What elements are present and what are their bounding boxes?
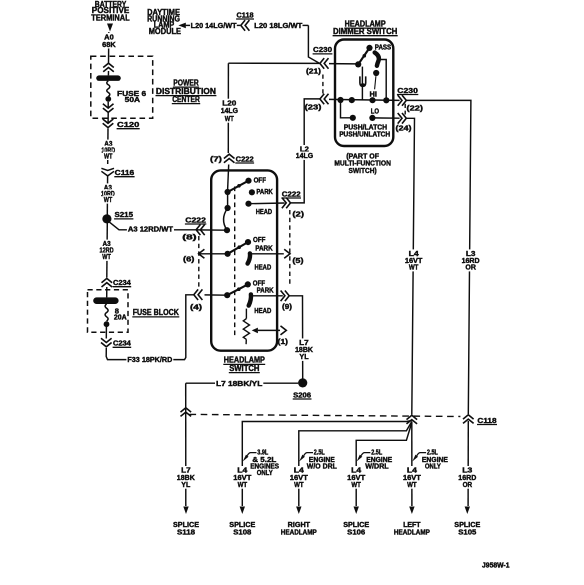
svg-text:S105: S105 bbox=[458, 527, 476, 536]
switch1 HEAD contact dot bbox=[245, 201, 251, 207]
switch3 pivot dot bbox=[224, 292, 230, 298]
connector C222 pin 8 (chevrons left) bbox=[196, 225, 205, 236]
svg-text:LO: LO bbox=[371, 107, 380, 116]
wire HEAD out to pin 2 bbox=[249, 202, 285, 205]
label right headlamp bbox=[281, 520, 317, 537]
wire label A3 10RD WT (lower) bbox=[100, 183, 116, 204]
wire PDC exit bbox=[107, 113, 109, 123]
wire pin 6 (inside switch) bbox=[200, 253, 228, 255]
switch3 OFF contact dot bbox=[245, 281, 251, 287]
pin label (1) bbox=[278, 337, 289, 346]
svg-text:HEAD: HEAD bbox=[254, 306, 271, 315]
label splice S118 bbox=[173, 520, 199, 537]
svg-text:C230: C230 bbox=[313, 45, 332, 54]
wire label L20 18LG/WT bbox=[254, 21, 303, 30]
svg-text:SWITCH: SWITCH bbox=[229, 364, 259, 373]
label PARK (switch3) bbox=[257, 285, 275, 294]
svg-text:WT: WT bbox=[104, 195, 113, 204]
connector C118 crossing L7 (chevrons up) bbox=[181, 408, 192, 417]
wire into fuse 6 bbox=[107, 71, 109, 75]
switch2 pivot dot bbox=[225, 251, 231, 257]
svg-text:WT: WT bbox=[104, 151, 113, 160]
svg-text:(6): (6) bbox=[183, 255, 195, 264]
label C230 (left) bbox=[313, 45, 333, 54]
connector C234 bottom (chevrons down) bbox=[101, 338, 112, 347]
wire (21) into dimmer switch bbox=[329, 63, 356, 65]
connector C222 dashed link (8-4) bbox=[198, 236, 200, 288]
svg-text:PUSH/UNLATCH: PUSH/UNLATCH bbox=[339, 130, 390, 139]
wire label A3 10RD WT (upper) bbox=[100, 139, 116, 160]
wire F33 18PK/RD from fuse block to headlamp switch pin 4 bbox=[106, 295, 194, 364]
label C234 (bottom) bbox=[113, 339, 132, 348]
wire L20 14LG WT vertical bbox=[227, 63, 229, 153]
connector C222 dashed link (2-9) bbox=[289, 210, 291, 287]
svg-text:PASS: PASS bbox=[375, 42, 392, 51]
svg-text:ONLY: ONLY bbox=[257, 468, 273, 477]
label PUSH/LATCH PUSH/UNLATCH bbox=[339, 122, 390, 138]
svg-text:PARK: PARK bbox=[256, 187, 273, 196]
svg-text:F33 18PK/RD: F33 18PK/RD bbox=[127, 355, 172, 364]
wire A0 battery feed (vertical) bbox=[108, 32, 110, 64]
svg-text:CENTER: CENTER bbox=[172, 95, 200, 104]
svg-text:OFF: OFF bbox=[254, 175, 267, 184]
connector (PDC cavity, chevrons up) bbox=[103, 63, 114, 72]
wire L4 16VT WT (pin24 to C118) bbox=[407, 118, 415, 414]
dimmer lever (to PASS) bbox=[358, 48, 369, 65]
fuse F8 wavy element bbox=[105, 304, 108, 321]
connector C118 crossing L4 (chevrons up) bbox=[407, 415, 418, 424]
wire label L3 16RD OR (S105 wire) bbox=[457, 466, 477, 489]
wire label L4 16VT WT (upper) bbox=[404, 249, 424, 272]
label left headlamp bbox=[394, 520, 430, 537]
svg-text:OFF: OFF bbox=[253, 235, 266, 244]
svg-text:YL: YL bbox=[299, 352, 309, 361]
svg-text:C234: C234 bbox=[113, 339, 131, 348]
connector C222 pin 9 (chevrons right) bbox=[281, 291, 290, 302]
wire label A0 68K bbox=[101, 33, 117, 49]
connector C120 (chevrons down) bbox=[103, 119, 114, 128]
svg-text:L20 18LG/WT: L20 18LG/WT bbox=[254, 21, 303, 30]
svg-text:WT: WT bbox=[225, 114, 234, 123]
svg-text:HEAD: HEAD bbox=[256, 207, 272, 216]
wire L7 vertical to splice S118 bbox=[185, 383, 187, 506]
connector C118 (chevrons left) bbox=[241, 20, 250, 31]
label C118 (top) bbox=[236, 10, 254, 19]
svg-text:(5): (5) bbox=[292, 256, 304, 265]
wire label L4 16VT WT (left headlamp wire) bbox=[402, 466, 422, 489]
svg-text:ONLY: ONLY bbox=[425, 462, 441, 471]
label C234 (top) bbox=[113, 278, 132, 287]
arrow to left headlamp bbox=[409, 507, 414, 515]
note 2.5L engine only bbox=[412, 448, 448, 471]
label HEAD (switch3) bbox=[254, 306, 271, 315]
svg-text:(9): (9) bbox=[282, 302, 293, 311]
label FUSE BLOCK bbox=[132, 308, 179, 317]
dimmer wiper arc bbox=[375, 53, 379, 66]
wire A3 segment C120-C116 bbox=[107, 129, 109, 165]
label HI bbox=[370, 90, 378, 99]
wire branch to splice S106 bbox=[356, 423, 412, 507]
terminal pin 1 arrow bbox=[281, 326, 287, 335]
wire label L7 18BK YL (vertical run) bbox=[294, 338, 314, 361]
wire A3 12RD/WT branch from S215 to C222 pin 8 bbox=[110, 222, 196, 234]
pin label (9) bbox=[282, 302, 293, 311]
dimmer HI row dot b bbox=[349, 97, 355, 103]
label splice S108 bbox=[229, 520, 255, 537]
svg-text:14LG: 14LG bbox=[296, 151, 314, 160]
label part of multi-function switch bbox=[334, 152, 391, 175]
connector C230 pin 24 (chevrons right) bbox=[398, 113, 407, 124]
pin label (7) bbox=[210, 155, 223, 164]
wire HI feed to LO row bbox=[341, 100, 353, 118]
switch1 lever bbox=[228, 181, 249, 192]
wire pin 7 into headlamp switch bbox=[228, 165, 229, 191]
dimmer HI row dot c bbox=[369, 97, 375, 103]
label C120 bbox=[117, 120, 140, 129]
headlamp dimmer switch title bbox=[333, 19, 398, 36]
svg-text:S215: S215 bbox=[115, 210, 134, 219]
wire A3 segment S215-C234 bbox=[106, 223, 109, 278]
wire stub before C118 bbox=[237, 24, 240, 26]
svg-text:S206: S206 bbox=[293, 390, 311, 399]
diagram number J958W-1 bbox=[482, 561, 510, 570]
svg-text:HI: HI bbox=[370, 90, 378, 99]
label C118 (bottom) bbox=[477, 416, 497, 425]
note 3.9L & 5.2L engines only bbox=[243, 448, 279, 478]
switch1 pivot dot bbox=[225, 189, 231, 195]
pin label (5) bbox=[292, 256, 304, 265]
op-box headlamp switch outline bbox=[211, 170, 277, 350]
wire pin 9 to splice S206 bbox=[289, 296, 302, 379]
label C222 (pin 2) bbox=[281, 189, 301, 198]
connector C118 crossing L3 (chevrons up) bbox=[463, 415, 474, 424]
label OFF (switch2) bbox=[253, 235, 266, 244]
svg-text:TERMINAL: TERMINAL bbox=[91, 14, 129, 23]
svg-text:FUSE BLOCK: FUSE BLOCK bbox=[133, 308, 179, 317]
terminal pin 5 arrow bbox=[284, 249, 290, 258]
svg-text:C118: C118 bbox=[237, 10, 254, 19]
switch1 OFF contact dot bbox=[245, 178, 251, 184]
connector C116 (in-line, shallow+deep chevrons) bbox=[101, 168, 114, 176]
svg-text:WT: WT bbox=[351, 480, 361, 489]
wire label L3 16RD OR (upper) bbox=[461, 249, 481, 272]
pin label (24) bbox=[396, 124, 413, 133]
dimmer arc output link bbox=[380, 60, 386, 101]
label C116 bbox=[114, 168, 134, 177]
svg-text:C116: C116 bbox=[115, 168, 135, 177]
switch1 feed link + arc to pin8 node bbox=[224, 192, 228, 230]
wire A3 segment C116-S215 bbox=[106, 176, 108, 215]
arrow to splice S118 bbox=[183, 507, 188, 515]
svg-text:WT: WT bbox=[409, 263, 419, 272]
arrow to splice S106 bbox=[354, 507, 359, 515]
wire L3 to splice S105 (lower) bbox=[467, 421, 469, 506]
svg-text:C222: C222 bbox=[236, 154, 254, 163]
svg-text:(24): (24) bbox=[396, 124, 413, 133]
svg-text:C120: C120 bbox=[117, 120, 139, 129]
resistor wiper arrow bbox=[252, 328, 280, 334]
wire fuse block exit bbox=[105, 327, 107, 339]
dimmer mid contact stub bbox=[375, 76, 376, 89]
arrow to splice S105 bbox=[465, 507, 470, 515]
svg-text:WT: WT bbox=[407, 480, 417, 489]
wire label L20 14LG WT bbox=[220, 98, 239, 123]
pin label (8) bbox=[182, 232, 197, 241]
switch1 link dot bbox=[225, 205, 231, 211]
svg-text:L7 18BK/YL: L7 18BK/YL bbox=[216, 379, 263, 388]
wire label L2 14LG bbox=[295, 145, 314, 161]
label PARK (switch2) bbox=[255, 244, 273, 253]
connector C230 pin 22 (chevrons right) bbox=[398, 95, 407, 106]
svg-text:WT: WT bbox=[102, 252, 111, 261]
label OFF (switch3) bbox=[253, 278, 266, 287]
label splice S106 bbox=[343, 520, 369, 537]
switch3 PARK-HEAD contact bar bbox=[249, 294, 251, 305]
battery positive terminal label bbox=[91, 0, 130, 23]
svg-text:J958W-1: J958W-1 bbox=[482, 561, 510, 570]
switch3 lever bbox=[227, 284, 248, 295]
note 2.5L engine w/DRL bbox=[357, 448, 393, 471]
label splice S105 bbox=[454, 520, 480, 537]
wire LO out bbox=[372, 117, 399, 119]
battery terminal symbol (solid down arrow) bbox=[107, 24, 113, 32]
switch mechanical link (dashed) bbox=[234, 187, 236, 339]
dimmer PASS contact dot bbox=[366, 45, 372, 51]
arrow to splice S108 bbox=[240, 507, 245, 515]
connector C230 pin 23 (chevrons left) bbox=[320, 94, 329, 105]
power distribution center label bbox=[156, 78, 217, 104]
wire label L4 16VT WT (right headlamp wire) bbox=[289, 466, 309, 489]
label PASS bbox=[375, 42, 392, 51]
fuse 8 20A value label bbox=[114, 306, 127, 321]
wire junction feed to headlamp switch (horizontal) bbox=[228, 62, 319, 64]
svg-text:PARK: PARK bbox=[255, 244, 273, 253]
wire label L7 18BK YL (bottom) bbox=[176, 466, 196, 489]
wire from C118 to corner bbox=[303, 24, 309, 26]
fuse F6 wavy element bbox=[107, 81, 110, 97]
svg-text:OR: OR bbox=[463, 480, 473, 489]
svg-text:(2): (2) bbox=[292, 210, 304, 219]
label C222 (pin 7) bbox=[235, 154, 254, 163]
wire pin 8 (inside switch) bbox=[197, 229, 228, 231]
wire label L20 14LG/WT bbox=[191, 21, 237, 30]
dimmer LO contact dot b bbox=[369, 115, 375, 121]
label PARK (switch1) bbox=[256, 187, 273, 196]
wire pin 9 out (inside switch) bbox=[253, 295, 283, 297]
headlamp switch title bbox=[223, 356, 265, 373]
wire fuse to PDC edge bbox=[107, 102, 109, 107]
svg-text:DIMMER SWITCH: DIMMER SWITCH bbox=[333, 27, 397, 36]
note 2.5L engine w/o DRL bbox=[299, 448, 337, 471]
svg-text:MODULE: MODULE bbox=[149, 27, 182, 36]
pin label (2) bbox=[292, 210, 304, 219]
svg-text:HEADLAMP: HEADLAMP bbox=[394, 527, 430, 536]
pin label (23) bbox=[305, 103, 322, 112]
svg-text:YL: YL bbox=[181, 480, 191, 489]
switch1 PARK contact dot bbox=[249, 189, 255, 195]
wire L7 18BK/YL horizontal bbox=[186, 379, 299, 388]
label S215 bbox=[114, 210, 133, 219]
svg-text:20A: 20A bbox=[114, 313, 127, 322]
svg-text:C222: C222 bbox=[185, 215, 206, 224]
dimmer detent fork symbol bbox=[360, 76, 366, 87]
label OFF (switch1) bbox=[254, 175, 267, 184]
svg-text:(23): (23) bbox=[305, 103, 322, 112]
dimmer mid contact dot bbox=[373, 70, 379, 76]
wire label L4 16VT WT (S108 wire) bbox=[232, 466, 252, 489]
svg-text:HEAD: HEAD bbox=[255, 263, 272, 272]
label C230 (right) bbox=[397, 86, 418, 95]
svg-text:WT: WT bbox=[294, 480, 304, 489]
svg-text:C230: C230 bbox=[397, 86, 418, 95]
connector C230 dashed link (21-23) bbox=[322, 75, 324, 95]
pin label (21) bbox=[306, 66, 322, 75]
svg-text:50A: 50A bbox=[125, 95, 141, 104]
svg-text:PARK: PARK bbox=[257, 285, 275, 294]
wire pin 5 out bbox=[250, 253, 284, 255]
svg-text:S106: S106 bbox=[347, 527, 365, 536]
wire L4 to left headlamp (lower) bbox=[411, 422, 413, 507]
connector C222 pin 2 (chevrons right) bbox=[282, 198, 291, 209]
fuse 6 50A value label bbox=[117, 89, 146, 104]
fuse F6 element bar bbox=[96, 75, 121, 81]
label LO bbox=[371, 107, 380, 116]
connector C234 top (chevrons up) bbox=[102, 278, 113, 287]
svg-text:W/DRL: W/DRL bbox=[365, 462, 389, 471]
svg-text:68K: 68K bbox=[102, 40, 116, 49]
svg-text:W/O DRL: W/O DRL bbox=[307, 462, 338, 471]
svg-text:HEADLAMP: HEADLAMP bbox=[281, 527, 317, 536]
dimmer lever pivot dot bbox=[355, 61, 361, 67]
svg-text:(1): (1) bbox=[278, 337, 289, 346]
dimmer LO contact dot a bbox=[350, 115, 356, 121]
label HEAD (switch2) bbox=[255, 263, 272, 272]
svg-text:OR: OR bbox=[465, 263, 476, 272]
switch2 lever bbox=[228, 242, 248, 254]
svg-text:(22): (22) bbox=[407, 103, 424, 112]
power distribution center dashed box bbox=[91, 56, 153, 118]
resistor R (dimmer rheostat) bbox=[243, 309, 249, 345]
svg-text:(21): (21) bbox=[306, 66, 322, 75]
dimmer HI row dot a bbox=[337, 97, 343, 103]
svg-text:C222: C222 bbox=[282, 189, 301, 198]
wire branch to right headlamp bbox=[299, 422, 412, 507]
dimmer pivot-to-HI vertical bbox=[361, 67, 363, 101]
wire pin 4 (into switch) bbox=[205, 294, 228, 296]
fuse F8 element bar bbox=[93, 297, 118, 304]
pin label (22) bbox=[407, 103, 424, 112]
svg-text:L20 14LG/WT: L20 14LG/WT bbox=[191, 21, 237, 30]
svg-text:(7): (7) bbox=[210, 155, 223, 164]
pin label (6) bbox=[183, 255, 195, 264]
label C222 (pin 8) bbox=[185, 215, 206, 224]
svg-text:(4): (4) bbox=[190, 303, 203, 312]
label HEAD (switch1) bbox=[256, 207, 272, 216]
wire L20 down to C230 pin 21 (vertical+diagonal) bbox=[308, 25, 319, 63]
label S206 bbox=[293, 390, 312, 399]
splice S206 bbox=[298, 378, 307, 387]
svg-text:C234: C234 bbox=[113, 278, 131, 287]
svg-text:(8): (8) bbox=[182, 232, 197, 241]
connector C222 pin 4 (chevrons left) bbox=[194, 289, 203, 300]
switch2 PARK-HEAD contact bar bbox=[248, 253, 250, 263]
svg-text:SWITCH): SWITCH) bbox=[349, 166, 378, 175]
connector C230 dashed link (22-24) bbox=[404, 104, 406, 115]
dimmer HI row dot d bbox=[383, 97, 389, 103]
terminal pin 6 arrow bbox=[199, 249, 205, 258]
svg-text:C118: C118 bbox=[477, 416, 496, 425]
svg-text:S108: S108 bbox=[233, 527, 251, 536]
pin label (4) bbox=[190, 303, 203, 312]
connector (PDC cavity, chevrons down) bbox=[103, 104, 114, 113]
op-box headlamp dimmer switch outline bbox=[335, 40, 393, 147]
connector C222 pin 7 (chevrons up) bbox=[224, 154, 235, 163]
wire L3 16RD OR (pin22 to C118) bbox=[407, 100, 471, 414]
wire into fuse block bbox=[106, 287, 108, 297]
svg-text:A3 12RD/WT: A3 12RD/WT bbox=[128, 225, 174, 234]
switch2 OFF contact dot bbox=[245, 239, 251, 245]
wire branch to splice S108 bbox=[242, 421, 411, 507]
splice S215 bbox=[102, 214, 111, 223]
wire L2 14LG (pin2 to C230 pin23) bbox=[291, 99, 320, 203]
switch1 pin8 node dot bbox=[224, 227, 230, 233]
svg-text:S118: S118 bbox=[177, 527, 195, 536]
connector C118 dashed harness line bbox=[190, 414, 461, 416]
daytime running lamp module label bbox=[147, 8, 182, 36]
fuse F6 lower terminal dot bbox=[105, 96, 111, 102]
arrow to right headlamp bbox=[296, 507, 301, 515]
svg-text:WT: WT bbox=[238, 480, 248, 489]
wire HI row (23->22) bbox=[329, 99, 400, 100]
fuse F8 lower terminal dot bbox=[104, 321, 110, 327]
connector C230 pin 21 (chevrons left) bbox=[320, 58, 329, 69]
fuse block dashed box bbox=[88, 290, 129, 332]
wire label L4 16VT WT (S106 wire) bbox=[346, 466, 366, 489]
wire label A3 12RD WT bbox=[99, 239, 115, 261]
arrow to DRL module bbox=[178, 23, 190, 29]
